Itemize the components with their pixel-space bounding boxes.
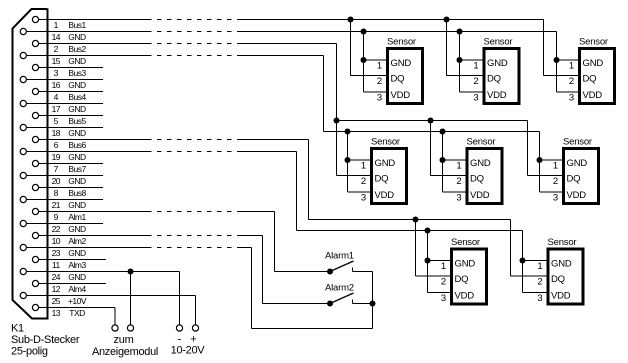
switch Alarm2 pivot dot <box>327 301 333 307</box>
sensor S5 pin numbers <box>456 160 461 203</box>
wire pin 16 net GND <box>26 79 103 81</box>
svg-text:12: 12 <box>52 284 61 294</box>
svg-text:DQ: DQ <box>470 174 484 185</box>
wire net Bus6 vertical drop <box>308 140 310 220</box>
wire TXD to terminal <box>114 308 116 325</box>
junction dot GND15/S5 <box>440 129 446 135</box>
svg-text:DQ: DQ <box>551 274 565 285</box>
wire net GND15 row-2 horizontal <box>324 131 540 133</box>
svg-text:2: 2 <box>473 76 478 87</box>
sensor S5 pin names <box>470 158 491 201</box>
wire pin 20 net GND <box>26 175 103 177</box>
svg-text:Sensor: Sensor <box>387 36 416 47</box>
sensor S2 GND/VDD wire <box>460 32 483 93</box>
sensor S8 GND/VDD wire <box>523 231 547 293</box>
label pin 17 GND <box>52 104 86 114</box>
svg-text:14: 14 <box>52 32 61 42</box>
sensor S3 GND/VDD wire <box>557 32 579 93</box>
svg-text:VDD: VDD <box>470 190 490 201</box>
label pin 7 Bus7 <box>54 164 87 174</box>
wire pin 2 net Bus2 <box>39 43 337 45</box>
junction dot switch common <box>370 301 376 307</box>
svg-text:20: 20 <box>52 176 61 186</box>
wire pin 11 net Alm3 <box>39 259 106 261</box>
wire pin 3 net Bus3 <box>39 67 103 69</box>
switch Alarm1 blade <box>330 261 354 272</box>
sensor S3 box <box>580 49 615 104</box>
svg-text:3: 3 <box>553 192 558 203</box>
junction dot S2 pin1 <box>457 57 463 63</box>
pin 6 circle <box>32 136 38 142</box>
svg-text:DQ: DQ <box>487 74 501 85</box>
svg-text:zum: zum <box>114 334 134 346</box>
pin 3 circle <box>32 64 38 70</box>
sensor S8 pin names <box>551 259 572 302</box>
wire pin 4 net Bus4 <box>39 91 103 93</box>
svg-text:VDD: VDD <box>375 190 395 201</box>
connector K1 body (Sub-D 25-pin) <box>13 9 48 319</box>
pin 14 circle <box>20 28 26 34</box>
sensor S1 GND/VDD wire <box>364 32 387 93</box>
switch Alarm2 blade <box>330 293 354 304</box>
wire pin 18 net GND <box>26 127 103 129</box>
svg-text:3: 3 <box>441 293 446 304</box>
svg-text:Sensor: Sensor <box>579 36 608 47</box>
junction dot Bus1/S2 <box>444 17 450 23</box>
wire pin 19 net GND <box>26 151 296 153</box>
pin 11 circle <box>32 256 38 262</box>
junction dot S3 pin1 <box>554 57 560 63</box>
svg-text:3: 3 <box>54 68 59 78</box>
svg-text:TXD: TXD <box>69 308 85 318</box>
label pin 13 TXD <box>52 308 86 318</box>
pin 5 circle <box>32 112 38 118</box>
svg-text:GND: GND <box>68 128 86 138</box>
wire +10V to plus terminal <box>195 296 197 325</box>
pin 21 circle <box>20 196 26 202</box>
wire Alm1 drop to switch <box>274 212 276 272</box>
svg-text:19: 19 <box>52 152 61 162</box>
svg-text:3: 3 <box>377 92 382 103</box>
svg-text:Bus8: Bus8 <box>68 188 86 198</box>
svg-text:+10V: +10V <box>68 296 87 306</box>
wire GND24 to minus terminal <box>179 272 181 325</box>
label pin 23 GND <box>52 248 86 258</box>
label pin 4 Bus4 <box>54 92 87 102</box>
svg-text:GND: GND <box>68 200 86 210</box>
wire net GND19 row-3 horizontal <box>297 230 523 232</box>
svg-text:GND: GND <box>487 58 508 69</box>
wire pin 13 net TXD <box>39 307 115 309</box>
svg-text:Alm1: Alm1 <box>68 212 86 222</box>
sensor S5 DQ wire <box>431 121 466 176</box>
svg-text:VDD: VDD <box>487 90 507 101</box>
junction dot Bus6/S7 <box>413 217 419 223</box>
sensor S6 GND/VDD wire <box>540 132 563 193</box>
junction dot GND14/S1 <box>361 29 367 35</box>
wire switch common vertical <box>372 272 374 329</box>
sensor S4 box <box>372 149 407 204</box>
label pin 24 GND <box>52 272 86 282</box>
svg-text:Alm4: Alm4 <box>68 284 86 294</box>
sensor S2 pin numbers <box>473 60 478 103</box>
sensor S4 pin numbers <box>361 160 366 203</box>
wire net GND15 vertical drop <box>323 56 325 132</box>
label pin 2 Bus2 <box>54 44 87 54</box>
svg-text:DQ: DQ <box>391 74 405 85</box>
wire net GND19 vertical drop <box>296 152 298 231</box>
svg-text:GND: GND <box>455 259 476 270</box>
svg-text:GND: GND <box>583 58 604 69</box>
svg-text:+: + <box>190 334 196 346</box>
sensor S2 DQ wire <box>447 20 483 76</box>
svg-text:17: 17 <box>52 104 61 114</box>
wire pin 1 net Bus1 <box>39 19 544 21</box>
sensor S1 pin names <box>391 58 412 101</box>
wire pin 23 net GND <box>26 247 251 249</box>
sensor S1 DQ wire <box>351 20 387 76</box>
svg-text:16: 16 <box>52 80 61 90</box>
svg-text:GND: GND <box>68 152 86 162</box>
svg-text:Anzeigemodul: Anzeigemodul <box>92 346 158 358</box>
svg-text:2: 2 <box>54 44 59 54</box>
label pin 6 Bus6 <box>54 140 87 150</box>
svg-text:DQ: DQ <box>455 274 469 285</box>
svg-text:GND: GND <box>391 58 412 69</box>
label pin 16 GND <box>52 80 86 90</box>
svg-text:25: 25 <box>52 296 61 306</box>
wire pin 24 net GND <box>26 271 179 273</box>
wire pin 25 net +10V <box>26 295 195 297</box>
label pin 14 GND <box>52 32 86 42</box>
svg-text:1: 1 <box>537 261 542 272</box>
wire net Bus2 row-2 horizontal <box>337 120 528 122</box>
junction dot Bus2 corner <box>334 118 340 124</box>
sensor S1 box <box>388 49 423 104</box>
svg-text:8: 8 <box>54 188 59 198</box>
svg-text:10: 10 <box>52 236 61 246</box>
sensor S3 DQ wire <box>544 20 579 76</box>
junction dot GND19/S7 <box>425 228 431 234</box>
sensor S8 box <box>548 249 583 304</box>
pin 12 circle <box>32 280 38 286</box>
sensor S4 DQ wire <box>337 121 371 176</box>
svg-text:1: 1 <box>456 160 461 171</box>
svg-text:GND: GND <box>68 248 86 258</box>
svg-text:-: - <box>178 334 182 346</box>
sensor S2 pin names <box>487 58 508 101</box>
sensor S4 GND/VDD wire <box>348 132 371 193</box>
svg-text:Sensor: Sensor <box>563 136 592 147</box>
svg-text:3: 3 <box>473 92 478 103</box>
junction dot Bus1/S1 <box>348 17 354 23</box>
svg-text:GND: GND <box>68 104 86 114</box>
connector K1 right edge <box>46 9 48 320</box>
svg-text:11: 11 <box>52 260 61 270</box>
sensor S6 pin numbers <box>553 160 558 203</box>
svg-text:2: 2 <box>377 76 382 87</box>
pin 25 circle <box>20 292 26 298</box>
wire pin 9 net Alm1 <box>39 211 275 213</box>
pin 16 circle <box>20 76 26 82</box>
label pin 10 Alm2 <box>52 236 87 246</box>
svg-text:2: 2 <box>537 276 542 287</box>
sensor S7 GND/VDD wire <box>428 231 451 293</box>
svg-text:13: 13 <box>52 308 61 318</box>
pin 2 circle <box>32 40 38 46</box>
label pin 3 Bus3 <box>54 68 87 78</box>
svg-text:9: 9 <box>54 212 59 222</box>
sensor S6 pin names <box>567 158 588 201</box>
junction dot GND14/S2 <box>457 29 463 35</box>
sensor S5 box <box>467 149 502 204</box>
label pin 9 Alm1 <box>54 212 87 222</box>
svg-text:15: 15 <box>52 56 61 66</box>
label pin 20 GND <box>52 176 86 186</box>
pin 15 circle <box>20 52 26 58</box>
wire GND23 drop <box>251 248 253 329</box>
sensor S8 DQ wire <box>511 220 547 277</box>
pin 1 circle <box>32 16 38 22</box>
svg-text:2: 2 <box>553 176 558 187</box>
svg-text:7: 7 <box>54 164 59 174</box>
wire pin 21 net GND <box>26 199 103 201</box>
svg-text:DQ: DQ <box>375 174 389 185</box>
wire pin 12 net Alm4 <box>39 283 106 285</box>
svg-text:Alarm2: Alarm2 <box>325 283 354 294</box>
svg-text:Alm3: Alm3 <box>68 260 86 270</box>
svg-text:GND: GND <box>68 80 86 90</box>
label pin 25 +10V <box>52 296 87 306</box>
pin 22 circle <box>20 220 26 226</box>
sensor S1 pin numbers <box>377 60 382 103</box>
svg-text:VDD: VDD <box>583 90 603 101</box>
svg-text:1: 1 <box>473 60 478 71</box>
sensor S7 box <box>452 249 487 304</box>
svg-text:Bus2: Bus2 <box>68 44 86 54</box>
svg-text:2: 2 <box>456 176 461 187</box>
switch Alarm1 pivot dot <box>327 269 333 275</box>
svg-text:GND: GND <box>68 32 86 42</box>
wire pin 14 net GND <box>26 31 556 33</box>
pin 4 circle <box>32 88 38 94</box>
svg-text:1: 1 <box>441 261 446 272</box>
pin 10 circle <box>32 232 38 238</box>
label pin 5 Bus5 <box>54 116 87 126</box>
junction dot S7 pin1 <box>425 258 431 264</box>
svg-text:VDD: VDD <box>551 291 571 302</box>
pin 20 circle <box>20 172 26 178</box>
svg-text:K1: K1 <box>11 323 24 335</box>
svg-text:Bus7: Bus7 <box>68 164 86 174</box>
svg-text:Bus1: Bus1 <box>68 20 86 30</box>
wire switch 1 contact side <box>352 268 354 272</box>
wire pin 7 net Bus7 <box>39 163 103 165</box>
svg-text:Sensor: Sensor <box>467 136 496 147</box>
sensor S3 pin names <box>583 58 604 101</box>
terminal TXD (zum Anzeigemodul) <box>112 325 118 331</box>
svg-text:GND: GND <box>375 158 396 169</box>
svg-text:3: 3 <box>361 192 366 203</box>
svg-text:Sensor: Sensor <box>371 136 400 147</box>
label pin 11 Alm3 <box>52 260 87 270</box>
svg-text:GND: GND <box>68 224 86 234</box>
wire pin 6 net Bus6 <box>39 139 309 141</box>
junction dot S5 pin1 <box>440 157 446 163</box>
svg-text:3: 3 <box>456 192 461 203</box>
svg-text:GND: GND <box>551 259 572 270</box>
sensor S6 box <box>564 149 599 204</box>
svg-text:Sensor: Sensor <box>548 237 577 248</box>
junction dot S6 pin1 <box>537 157 543 163</box>
sensor S2 box <box>484 49 519 104</box>
junction dot S8 pin1 <box>520 258 526 264</box>
svg-text:VDD: VDD <box>455 291 475 302</box>
svg-text:Bus4: Bus4 <box>68 92 86 102</box>
svg-text:23: 23 <box>52 248 61 258</box>
sensor S4 pin names <box>375 158 396 201</box>
svg-text:22: 22 <box>52 224 61 234</box>
svg-text:1: 1 <box>54 20 59 30</box>
wire net Bus2 vertical drop <box>336 44 338 121</box>
label pin 15 GND <box>52 56 86 66</box>
terminal GND (zum Anzeigemodul) <box>127 325 133 331</box>
label pin 12 Alm4 <box>52 284 87 294</box>
terminal minus 10-20V <box>176 325 182 331</box>
junction dot S1 pin1 <box>361 57 367 63</box>
sensor S5 GND/VDD wire <box>443 132 466 193</box>
svg-text:10-20V: 10-20V <box>171 345 206 357</box>
svg-text:DQ: DQ <box>583 74 597 85</box>
label pin 19 GND <box>52 152 86 162</box>
pin 17 circle <box>20 100 26 106</box>
junction dot GND15/S4 <box>345 129 351 135</box>
svg-text:GND: GND <box>470 158 491 169</box>
svg-text:2: 2 <box>361 176 366 187</box>
svg-text:Sensor: Sensor <box>484 36 513 47</box>
sensor S6 DQ wire <box>528 121 563 176</box>
sensor S3 pin numbers <box>569 60 574 103</box>
pin 9 circle <box>32 208 38 214</box>
wire switch 2 contact side <box>352 300 354 304</box>
wire Alm2 drop to switch <box>262 236 264 304</box>
sensor S7 DQ wire <box>416 220 451 277</box>
svg-text:Alm2: Alm2 <box>68 236 86 246</box>
pin 23 circle <box>20 244 26 250</box>
pin 13 circle <box>32 304 38 310</box>
wire pin 5 net Bus5 <box>39 115 103 117</box>
pin 7 circle <box>32 160 38 166</box>
svg-text:21: 21 <box>52 200 61 210</box>
svg-text:GND: GND <box>68 272 86 282</box>
label pin 8 Bus8 <box>54 188 87 198</box>
wire pin 10 net Alm2 <box>39 235 263 237</box>
sensor S7 pin names <box>455 259 476 302</box>
svg-text:5: 5 <box>54 116 59 126</box>
svg-text:18: 18 <box>52 128 61 138</box>
svg-text:Alarm1: Alarm1 <box>325 251 354 262</box>
wire net Bus6 row-3 horizontal <box>309 219 511 221</box>
svg-text:1: 1 <box>553 160 558 171</box>
svg-text:DQ: DQ <box>567 174 581 185</box>
svg-text:Sensor: Sensor <box>451 237 480 248</box>
svg-text:4: 4 <box>54 92 59 102</box>
svg-text:VDD: VDD <box>391 90 411 101</box>
label pin 21 GND <box>52 200 86 210</box>
svg-text:Bus5: Bus5 <box>68 116 86 126</box>
svg-text:1: 1 <box>361 160 366 171</box>
label pin 18 GND <box>52 128 86 138</box>
svg-text:2: 2 <box>441 276 446 287</box>
sensor S8 pin numbers <box>537 261 542 304</box>
pin 18 circle <box>20 124 26 130</box>
wire pin 17 net GND <box>26 103 103 105</box>
wire GND24 drop to terminal <box>130 272 132 325</box>
svg-text:1: 1 <box>569 60 574 71</box>
svg-text:VDD: VDD <box>567 190 587 201</box>
svg-text:1: 1 <box>377 60 382 71</box>
junction dot S4 pin1 <box>345 157 351 163</box>
svg-text:GND: GND <box>68 56 86 66</box>
svg-text:Bus3: Bus3 <box>68 68 86 78</box>
wire pin 22 net GND <box>26 223 103 225</box>
svg-text:GND: GND <box>567 158 588 169</box>
pin 24 circle <box>20 268 26 274</box>
svg-text:Sub-D-Stecker: Sub-D-Stecker <box>11 334 80 346</box>
junction dot GND24 <box>128 269 134 275</box>
terminal plus 10-20V <box>192 325 198 331</box>
svg-text:2: 2 <box>569 76 574 87</box>
svg-text:24: 24 <box>52 272 61 282</box>
pin 19 circle <box>20 148 26 154</box>
wire pin 15 net GND <box>26 55 323 57</box>
pin 8 circle <box>32 184 38 190</box>
wire pin 8 net Bus8 <box>39 187 103 189</box>
svg-text:Bus6: Bus6 <box>68 140 86 150</box>
svg-text:6: 6 <box>54 140 59 150</box>
label pin 1 Bus1 <box>54 20 87 30</box>
label pin 22 GND <box>52 224 86 234</box>
svg-text:3: 3 <box>537 293 542 304</box>
junction dot Bus2/S5 <box>428 118 434 124</box>
svg-text:3: 3 <box>569 92 574 103</box>
svg-text:GND: GND <box>68 176 86 186</box>
svg-text:25-polig: 25-polig <box>11 345 48 357</box>
sensor S7 pin numbers <box>441 261 446 304</box>
